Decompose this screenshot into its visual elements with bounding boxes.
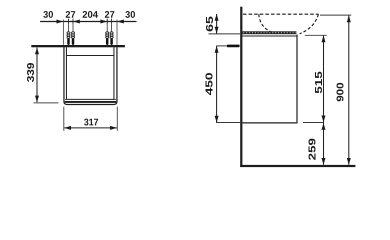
svg-text:65: 65 — [205, 15, 216, 32]
cabinet inner side line right — [113, 47, 115, 99]
900 arrow up — [347, 16, 351, 23]
svg-text:339: 339 — [26, 62, 37, 82]
tick b2 — [72, 19, 74, 25]
extension line countertop underside (65 bottom) — [209, 33, 241, 35]
svg-text:259: 259 — [308, 137, 319, 160]
svg-text:450: 450 — [204, 72, 215, 95]
cabinet front line side view — [296, 35, 298, 123]
900 dimension line — [348, 16, 350, 165]
extension line cabinet top right (515 top) — [305, 34, 327, 36]
317 extension line left — [63, 107, 65, 131]
extension line cabinet bottom left of wall (450 bottom) — [216, 122, 240, 124]
floor line — [240, 165, 355, 167]
bottom panel thick bar — [65, 101, 117, 103]
fixing screw 1 — [67, 24, 70, 45]
washbasin bowl left dashed curve — [259, 14, 271, 32]
317 dimension line — [64, 127, 117, 129]
259 arrow down at floor — [322, 158, 326, 165]
washbasin rim dashed top — [243, 13, 318, 15]
svg-text:900: 900 — [336, 82, 347, 101]
svg-text:204: 204 — [82, 10, 98, 21]
chain arrow up below cabinet bottom — [322, 123, 326, 130]
svg-text:27: 27 — [104, 10, 114, 21]
cabinet outer body front view (rounded bottom corners) — [64, 47, 117, 104]
extension line cabinet bottom right (259 top) — [303, 122, 324, 124]
fixing screw 2 — [72, 24, 75, 45]
extension line left cabinet edge — [62, 20, 64, 45]
317 extension line right — [116, 107, 118, 131]
450 arrow up — [215, 46, 219, 53]
65 arrow up — [215, 14, 219, 21]
cabinet bottom line side view — [242, 122, 297, 124]
450 arrow down — [215, 116, 219, 123]
extension line right cabinet edge — [116, 20, 118, 45]
fixing screw 3 — [106, 24, 109, 45]
arrow right tip b3 — [100, 20, 107, 24]
515/259 dimension line — [323, 36, 325, 165]
339 dimension line — [36, 48, 38, 103]
countertop slab front view — [31, 45, 125, 47]
317 arrow right — [110, 126, 117, 130]
fixing screw 4 — [110, 24, 113, 45]
450 dimension line — [216, 46, 218, 122]
cabinet inner side line left — [65, 47, 67, 99]
top dimension line — [40, 21, 136, 23]
svg-text:317: 317 — [84, 117, 99, 128]
tick b1 — [68, 19, 70, 25]
cabinet top line side view — [242, 35, 297, 37]
countertop hatched section — [242, 31, 296, 34]
svg-text:27: 27 — [65, 10, 75, 21]
515 arrow up — [322, 35, 326, 42]
extension line cabinet mounting level (450 top) — [216, 45, 240, 47]
extension line basin top right (900 top) — [320, 14, 351, 16]
wall mounting rail bar — [227, 45, 239, 48]
tick b4 — [111, 19, 113, 25]
arrow left at right cabinet edge — [117, 20, 124, 24]
339 arrow down — [35, 96, 39, 103]
tick b3 — [106, 19, 108, 25]
317 arrow left — [64, 126, 71, 130]
arrow right at left cabinet edge — [57, 20, 64, 24]
65 dimension line — [216, 14, 218, 34]
svg-text:515: 515 — [314, 70, 325, 93]
65 arrow down — [215, 27, 219, 34]
drawer front top line — [66, 55, 114, 57]
900 arrow down — [347, 158, 351, 165]
arrow left tip b2 — [73, 20, 80, 24]
339 arrow up — [35, 48, 39, 55]
chain arrow down at cabinet bottom — [322, 116, 326, 123]
wall line — [240, 7, 242, 167]
drawer bottom thin line — [65, 98, 116, 100]
svg-text:30: 30 — [43, 10, 53, 21]
washbasin bowl right dashed curve — [300, 14, 319, 34]
339 bottom extension tick — [34, 102, 59, 104]
svg-text:30: 30 — [125, 10, 135, 21]
